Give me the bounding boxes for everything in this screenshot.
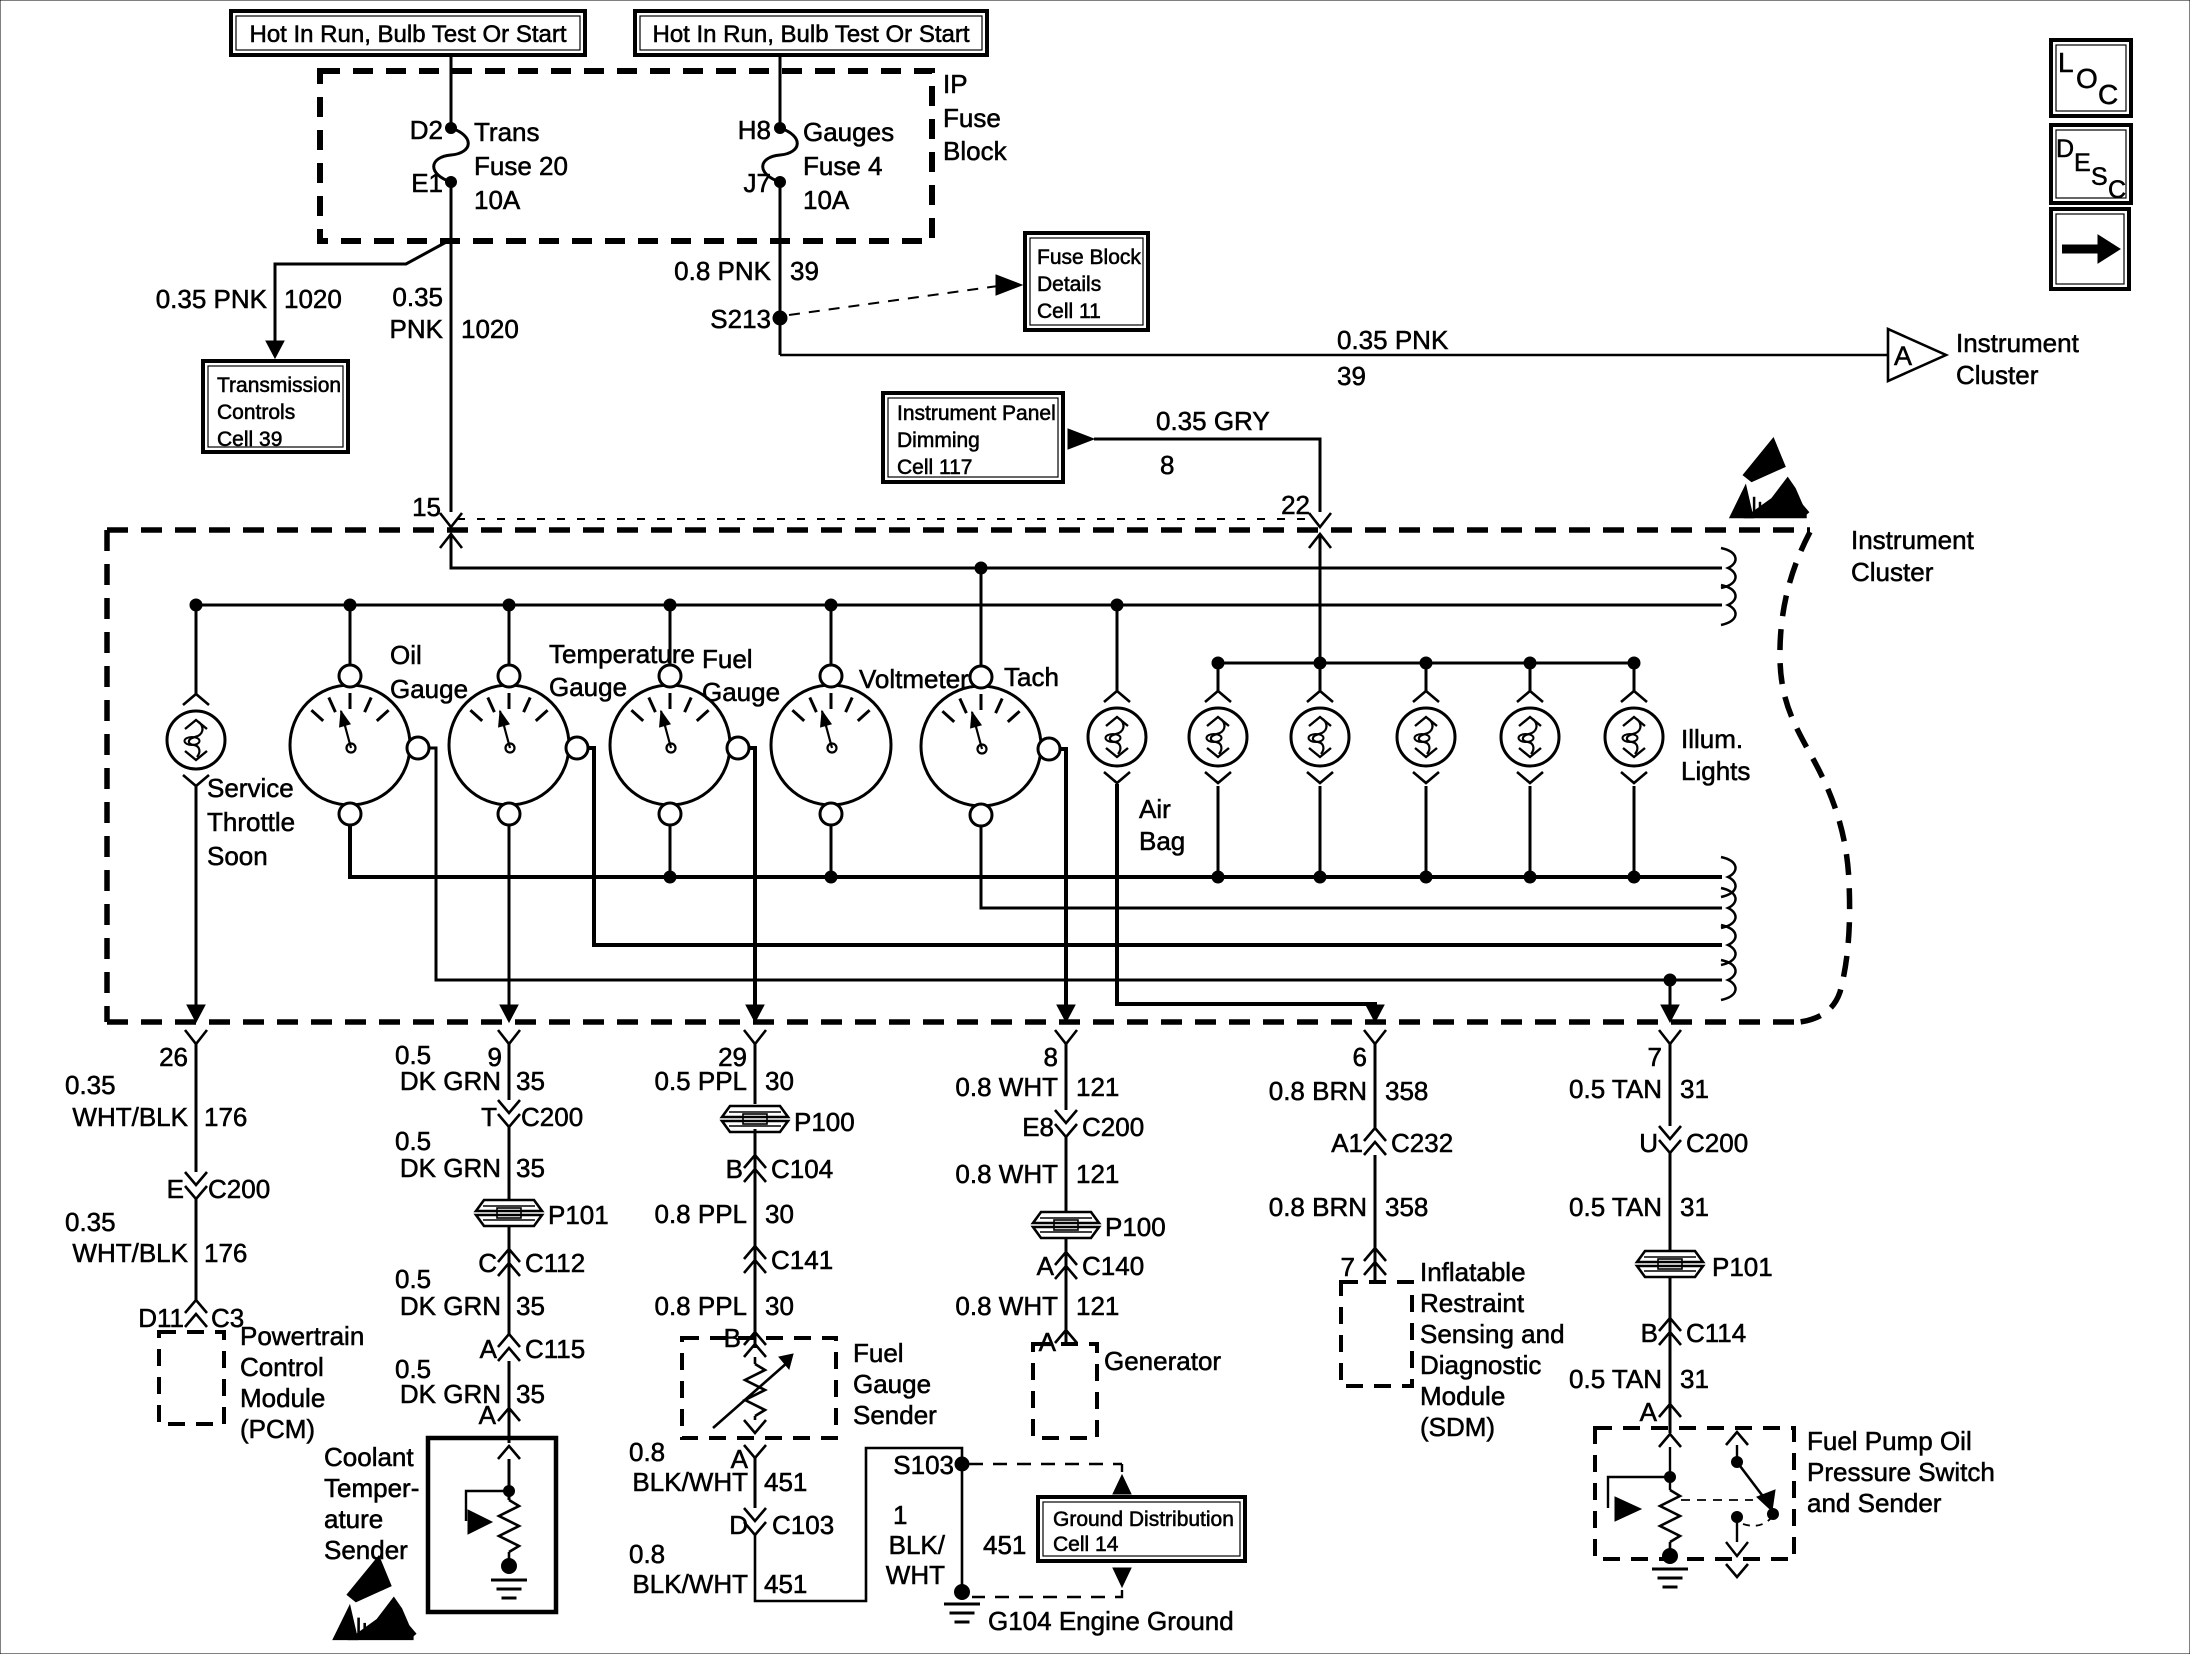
svg-text:A: A <box>480 1334 498 1364</box>
svg-text:E: E <box>167 1174 184 1204</box>
grommet P100 (fuel sender circuit) <box>722 1106 855 1137</box>
svg-text:31: 31 <box>1680 1074 1709 1104</box>
wire: fuel gauge right terminal to pin 29 <box>749 748 755 1007</box>
svg-text:0.8: 0.8 <box>629 1539 665 1569</box>
coolant sender internal: variable resistor <box>499 1500 519 1552</box>
svg-text:C103: C103 <box>772 1510 834 1540</box>
svg-text:Oil: Oil <box>390 640 422 670</box>
svg-text:39: 39 <box>1337 361 1366 391</box>
wire: tach bottom to continuation (y=908) <box>981 826 1722 908</box>
label: Fuel Gauge <box>702 644 780 707</box>
cluster pin 15 connector marks <box>440 513 462 548</box>
svg-text:Tach: Tach <box>1004 662 1059 692</box>
connector pin A at fuel pump switch <box>1640 1397 1681 1427</box>
label: 0.8 BRN 358 (upper) <box>1269 1076 1429 1106</box>
label: Coolant Temperature Sender <box>324 1442 419 1565</box>
label: 0.35 PNK 1020 (main wire) <box>390 282 519 344</box>
wire: feed into Gauges Fuse 4 <box>779 55 782 128</box>
reference box: Instrument Panel Dimming Cell 117 <box>883 393 1063 482</box>
svg-text:0.35: 0.35 <box>65 1070 116 1100</box>
svg-text:Gauge: Gauge <box>390 674 468 704</box>
svg-text:Temper-: Temper- <box>324 1473 419 1503</box>
svg-text:Sender: Sender <box>853 1400 937 1430</box>
label: Oil Gauge <box>390 640 468 704</box>
svg-text:Diagnostic: Diagnostic <box>1420 1350 1541 1380</box>
connector C200 pin E8 <box>1022 1110 1144 1142</box>
svg-text:Generator: Generator <box>1104 1346 1221 1376</box>
wire: 0.35 PNK 39 to instrument cluster (off-page A) <box>780 354 1888 356</box>
label: Voltmeter <box>859 664 969 694</box>
svg-text:176: 176 <box>204 1238 247 1268</box>
svg-text:26: 26 <box>159 1042 188 1072</box>
svg-text:39: 39 <box>790 256 819 286</box>
svg-text:Fuse: Fuse <box>943 103 1001 133</box>
svg-text:E: E <box>2074 149 2091 177</box>
ESD sensitivity symbol (top right) <box>1730 438 1808 518</box>
svg-text:10A: 10A <box>474 185 521 215</box>
wire: 0.5 TAN 31 (C200 to P101) <box>1669 1153 1672 1251</box>
svg-text:Fuel: Fuel <box>702 644 753 674</box>
wire: oil gauge right terminal to continuation (y=980) <box>429 748 1722 980</box>
gauge: Temperature Gauge <box>449 665 588 825</box>
svg-text:451: 451 <box>764 1569 807 1599</box>
svg-text:DK GRN: DK GRN <box>400 1291 501 1321</box>
svg-text:7: 7 <box>1648 1042 1662 1072</box>
svg-text:0.5 TAN: 0.5 TAN <box>1569 1364 1662 1394</box>
lamp: illumination light 2 <box>1291 691 1349 783</box>
svg-text:Controls: Controls <box>217 401 295 424</box>
label: pin 26 <box>159 1042 188 1072</box>
fuel pump sender internal: terminal chevron (left) <box>1659 1434 1681 1447</box>
svg-text:30: 30 <box>765 1291 794 1321</box>
gauge: Voltmeter <box>771 665 891 825</box>
svg-text:Dimming: Dimming <box>897 429 980 452</box>
svg-text:Block: Block <box>943 136 1008 166</box>
wire: 0.8 WHT 121 (C140 to generator) <box>1065 1279 1068 1344</box>
label: 0.5 DK GRN 35 (fourth) <box>395 1354 545 1409</box>
connector pin A at coolant sender <box>479 1400 520 1430</box>
svg-text:Service: Service <box>207 773 294 803</box>
svg-text:0.8 BRN: 0.8 BRN <box>1269 1192 1367 1222</box>
lamp: Service Throttle Soon indicator <box>167 694 225 786</box>
wire: pin 15 feed to gauge bus (y=568) <box>451 534 1722 568</box>
svg-text:Cell 14: Cell 14 <box>1053 1533 1119 1556</box>
wire: 0.5 DK GRN 35 (pin9 to C200) <box>508 1044 511 1100</box>
svg-text:P100: P100 <box>794 1107 855 1137</box>
svg-text:Cluster: Cluster <box>1956 360 2039 390</box>
pin label E1 <box>411 168 443 198</box>
wire: 0.8 WHT 121 (pin8 to C200) <box>1065 1044 1068 1110</box>
wire: 0.8 PPL 30 (P100 to C104) <box>754 1129 757 1182</box>
svg-text:Ground Distribution: Ground Distribution <box>1053 1508 1234 1531</box>
fuel pump sender internal: wire and tap <box>1608 1447 1676 1521</box>
label: 0.8 PNK 39 <box>674 256 819 286</box>
label: Temperature Gauge <box>549 639 695 702</box>
wire: 980 line tap to pin 7 <box>1669 980 1672 1007</box>
svg-text:P101: P101 <box>548 1200 609 1230</box>
svg-text:1020: 1020 <box>284 284 342 314</box>
label: Powertrain Control Module (PCM) <box>240 1321 364 1444</box>
instrument cluster dashed outline (top/left/bottom) <box>107 530 1810 1022</box>
gauge: Tach <box>921 666 1060 826</box>
svg-text:358: 358 <box>1385 1192 1428 1222</box>
lamp: illumination light 1 <box>1189 691 1247 783</box>
label: Inflatable Restraint Sensing and Diagnostic Module (SDM) <box>1420 1257 1565 1442</box>
splice S103 <box>955 1457 969 1471</box>
wire: 0.8 PPL 30 (C104 to C141) <box>754 1182 757 1273</box>
svg-text:C115: C115 <box>525 1334 585 1364</box>
wire: 0.5 DK GRN 35 (C115 to sender) <box>508 1361 511 1443</box>
cluster pin 26 exit <box>185 1005 207 1044</box>
wire: 0.35 WHT/BLK 176 (pin26 to C200) <box>195 1044 198 1172</box>
label: 0.35 WHT/BLK 176 (lower) <box>65 1207 247 1268</box>
svg-text:0.35 PNK: 0.35 PNK <box>1337 325 1449 355</box>
svg-text:Gauge: Gauge <box>853 1369 931 1399</box>
svg-text:0.5 TAN: 0.5 TAN <box>1569 1074 1662 1104</box>
svg-text:Inflatable: Inflatable <box>1420 1257 1526 1287</box>
splice S213 <box>773 311 787 325</box>
cluster pin 9 exit <box>498 1005 520 1044</box>
svg-text:Trans: Trans <box>474 117 540 147</box>
IP Fuse Block dashed outline <box>320 71 932 241</box>
label: 0.8 BLK/WHT 451 (upper) <box>629 1437 807 1497</box>
svg-text:Pressure Switch: Pressure Switch <box>1807 1457 1995 1487</box>
legend box: DESC <box>2051 125 2131 204</box>
svg-text:31: 31 <box>1680 1364 1709 1394</box>
wire: illum lamp bottoms <box>1218 786 1634 877</box>
wire: illum lamp 1 top <box>1217 663 1220 691</box>
wire: 0.35 GRY drop from pin 22 to illum bus <box>1319 534 1322 691</box>
svg-text:8: 8 <box>1160 450 1174 480</box>
svg-text:C: C <box>478 1248 497 1278</box>
label: 0.8 PPL 30 (lower) <box>654 1291 793 1321</box>
fuel sender internal: terminal chevron <box>744 1344 766 1357</box>
pin label H8 <box>738 115 771 145</box>
label: Service Throttle Soon <box>207 773 295 871</box>
svg-text:Cell 39: Cell 39 <box>217 428 282 451</box>
wire: temp gauge bottom to pin 9 <box>508 824 511 1007</box>
svg-text:0.5 TAN: 0.5 TAN <box>1569 1192 1662 1222</box>
svg-text:0.5 PPL: 0.5 PPL <box>654 1066 747 1096</box>
svg-text:Fuse Block: Fuse Block <box>1037 246 1141 269</box>
svg-text:C104: C104 <box>771 1154 833 1184</box>
wire: air bag lamp top <box>1116 605 1119 691</box>
wire: 0.8 PPL 30 (C141 to sender) <box>754 1273 757 1348</box>
ground G104 Engine Ground <box>944 1585 980 1623</box>
svg-text:C200: C200 <box>1082 1112 1144 1142</box>
svg-text:10A: 10A <box>803 185 850 215</box>
svg-text:Powertrain: Powertrain <box>240 1321 364 1351</box>
svg-text:Lights: Lights <box>1681 756 1750 786</box>
svg-text:C112: C112 <box>525 1248 585 1278</box>
label: S103 <box>893 1450 954 1480</box>
svg-text:451: 451 <box>764 1467 807 1497</box>
component box: Generator <box>1033 1344 1097 1438</box>
connector C104 pin B <box>726 1154 834 1184</box>
label: pin 7 <box>1648 1042 1662 1072</box>
reference box: Fuse Block Details Cell 11 <box>1025 233 1148 330</box>
legend box: forward arrow <box>2051 209 2129 289</box>
dashed reference to Ground Distribution (upper) <box>969 1464 1131 1494</box>
svg-text:Details: Details <box>1037 273 1101 296</box>
off-page connector A to Instrument Cluster <box>1888 329 1946 381</box>
wire: 0.5 PPL 30 (pin29 to P100) <box>754 1044 757 1104</box>
svg-text:7: 7 <box>1341 1252 1355 1282</box>
junction dots on gauge top bus <box>190 599 1123 611</box>
reference box: Transmission Controls Cell 39 <box>203 361 348 452</box>
svg-text:WHT/BLK: WHT/BLK <box>72 1102 188 1132</box>
wire: 0.35 PNK 1020 from fuse 20 to cluster pin 15 <box>450 182 453 512</box>
svg-text:H8: H8 <box>738 115 771 145</box>
junction dots on illum top bus <box>1212 657 1640 669</box>
wire: branch 0.35 PNK 1020 to transmission controls <box>266 240 450 358</box>
label: 0.35 PNK 39 (long run) <box>1337 325 1449 391</box>
wire: 0.8 WHT 121 (C200 to P100) <box>1065 1137 1068 1212</box>
label: 0.35 WHT/BLK 176 (upper) <box>65 1070 247 1132</box>
cluster pin 29 exit <box>744 1005 766 1044</box>
legend box: LOC <box>2051 40 2131 116</box>
svg-text:Instrument: Instrument <box>1956 328 2080 358</box>
svg-text:P101: P101 <box>1712 1252 1773 1282</box>
label: 0.8 BRN 358 (lower) <box>1269 1192 1429 1222</box>
svg-text:30: 30 <box>765 1066 794 1096</box>
svg-text:IP: IP <box>943 69 968 99</box>
oil pressure switch internal: bottom contact and exit <box>1726 1512 1748 1578</box>
wire: 0.8 BLK/WHT 451 (C103 to splice S103) <box>755 1448 962 1601</box>
oil pressure switch internal: actuating dashed link <box>1681 1500 1771 1526</box>
svg-text:358: 358 <box>1385 1076 1428 1106</box>
wire: 0.8 BRN 358 (C232 to SDM) <box>1374 1155 1377 1282</box>
wire: 0.5 DK GRN 35 (C200 to P101) <box>508 1127 511 1200</box>
svg-text:Sender: Sender <box>324 1535 408 1565</box>
svg-text:Control: Control <box>240 1352 324 1382</box>
svg-text:30: 30 <box>765 1199 794 1229</box>
svg-text:S: S <box>2091 163 2108 191</box>
wire: temperature gauge right terminal to continuation (y=945) <box>588 748 1722 945</box>
wire: 0.8 WHT 121 (P100 to C140) <box>1065 1238 1068 1279</box>
svg-text:35: 35 <box>516 1291 545 1321</box>
continuation bracket (temp 945) <box>1721 925 1736 965</box>
svg-text:0.8 PNK: 0.8 PNK <box>674 256 771 286</box>
grommet P101 (temp sender circuit) <box>476 1200 609 1230</box>
lamp: illumination light 5 <box>1605 691 1663 783</box>
label: pin 6 <box>1353 1042 1367 1072</box>
label: 0.5 DK GRN 35 (second) <box>395 1126 545 1183</box>
label: 0.8 BLK/WHT 451 (lower) <box>629 1539 807 1599</box>
svg-text:D: D <box>2056 135 2074 163</box>
svg-text:Coolant: Coolant <box>324 1442 414 1472</box>
svg-text:Fuse 20: Fuse 20 <box>474 151 568 181</box>
label: 0.5 TAN 31 (lower) <box>1569 1364 1709 1394</box>
value label: Gauges Fuse 4 10A <box>803 117 894 215</box>
pin label J7 <box>744 168 771 198</box>
wire: 0.5 DK GRN 35 (C112 to C115) <box>508 1276 511 1334</box>
label: Fuel Pump Oil Pressure Switch and Sender <box>1807 1426 1995 1518</box>
label: pin 29 <box>718 1042 747 1072</box>
connector C200 pin T <box>481 1100 583 1132</box>
svg-text:1020: 1020 <box>461 314 519 344</box>
svg-text:Cell 117: Cell 117 <box>897 456 973 479</box>
label: 0.35 GRY 8 <box>1156 406 1270 480</box>
junction dots on ground bus <box>664 871 1640 883</box>
wire: 0.8 PNK 39 from fuse 4 to splice S213 <box>779 182 782 355</box>
svg-text:P100: P100 <box>1105 1212 1166 1242</box>
label: Fuel Gauge Sender <box>853 1338 937 1430</box>
svg-text:0.8: 0.8 <box>629 1437 665 1467</box>
cluster pin 7 exit <box>1659 1005 1681 1044</box>
wire: illum lights top bus (y=663) <box>1218 662 1634 665</box>
wire: illum lamp 4 top <box>1529 663 1532 691</box>
label: Air Bag <box>1139 794 1185 856</box>
dashed reference arrow from S213 to Fuse Block Details <box>789 275 1022 315</box>
svg-text:B: B <box>1641 1318 1658 1348</box>
svg-text:Soon: Soon <box>207 841 268 871</box>
label: 0.8 PPL 30 (mid) <box>654 1199 793 1229</box>
continuation bracket (bus 605) <box>1721 585 1736 625</box>
connector C200 pin E <box>167 1172 271 1204</box>
svg-text:6: 6 <box>1353 1042 1367 1072</box>
svg-text:D2: D2 <box>410 115 443 145</box>
component box: Coolant Temperature Sender <box>428 1438 556 1612</box>
connector C3 pin D11 <box>138 1300 244 1333</box>
svg-text:176: 176 <box>204 1102 247 1132</box>
connector C200 pin U <box>1639 1126 1748 1158</box>
svg-text:Illum.: Illum. <box>1681 724 1743 754</box>
label: 0.35 PNK 1020 (branch) <box>156 284 342 314</box>
wire: fuel gauge top <box>669 605 672 666</box>
wire: 0.5 TAN 31 (C114 to switch) <box>1669 1345 1672 1433</box>
wire: gauge top bus (y=605) <box>196 604 1722 607</box>
svg-text:C140: C140 <box>1082 1251 1144 1281</box>
svg-text:C: C <box>2108 176 2126 204</box>
label: Illum. Lights <box>1681 724 1750 786</box>
label: 1 BLK/WHT 451 (ground lead) <box>886 1500 1027 1590</box>
lamp: Air Bag indicator <box>1088 691 1146 783</box>
label: 0.8 WHT 121 (lower) <box>955 1291 1119 1321</box>
connector C114 pin B <box>1641 1318 1747 1348</box>
wire: fuel gauge bottom <box>669 824 672 877</box>
cluster pin 8 exit <box>1055 1005 1077 1044</box>
wire: service throttle lamp to pin 26 <box>195 786 198 1007</box>
svg-text:0.8 BRN: 0.8 BRN <box>1269 1076 1367 1106</box>
wire: 0.35 GRY 8 to cluster pin 22 <box>1094 439 1320 512</box>
connector C232 pin A1 <box>1331 1128 1453 1158</box>
svg-text:B: B <box>726 1154 743 1184</box>
svg-text:0.8 WHT: 0.8 WHT <box>955 1291 1058 1321</box>
connector pin A at generator <box>1039 1327 1077 1357</box>
svg-text:E1: E1 <box>411 168 443 198</box>
wire: feed into Trans Fuse 20 <box>450 55 453 128</box>
junction: pin 7 tap on 980 line <box>1664 974 1676 986</box>
connector C115 pin A <box>480 1334 586 1364</box>
continuation bracket (bus 877) <box>1721 857 1736 897</box>
svg-text:U: U <box>1639 1128 1658 1158</box>
grommet P100 (generator circuit) <box>1033 1212 1166 1242</box>
grommet P101 (fuel pump circuit) <box>1637 1251 1773 1282</box>
label: Tach <box>1004 662 1059 692</box>
svg-text:Bag: Bag <box>1139 826 1185 856</box>
svg-text:35: 35 <box>516 1153 545 1183</box>
component box: Inflatable Restraint Sensing and Diagnostic Module (SDM) <box>1341 1282 1412 1386</box>
svg-text:C141: C141 <box>771 1245 833 1275</box>
svg-text:D11: D11 <box>138 1303 184 1333</box>
label: pin 22 <box>1281 490 1310 520</box>
component box: Fuel Pump Oil Pressure Switch and Sender <box>1595 1428 1794 1559</box>
svg-text:D: D <box>729 1510 748 1540</box>
svg-text:L: L <box>2058 47 2074 78</box>
svg-text:0.8 WHT: 0.8 WHT <box>955 1072 1058 1102</box>
connector face dashed line between pins 15 and 22 <box>457 518 1314 520</box>
svg-text:8: 8 <box>1044 1042 1058 1072</box>
label: 0.5 TAN 31 (upper) <box>1569 1074 1709 1104</box>
svg-text:Instrument: Instrument <box>1851 525 1975 555</box>
connector C103 pin D <box>729 1508 834 1540</box>
label: 0.5 PPL 30 <box>654 1066 793 1096</box>
fuse F4 (Gauges Fuse 4 10A), terminals H8/J7 <box>763 123 798 188</box>
cluster pin 6 exit <box>1364 1005 1386 1044</box>
wire: voltmeter top <box>830 605 833 666</box>
svg-text:C200: C200 <box>208 1174 270 1204</box>
connector pin 7 at SDM <box>1341 1248 1386 1282</box>
connector C112 pin C <box>478 1248 585 1278</box>
reference box: Ground Distribution Cell 14 <box>1038 1497 1245 1561</box>
power feed box: Hot In Run, Bulb Test Or Start (right) <box>635 11 987 55</box>
wire: illum lamp 3 top <box>1425 663 1428 691</box>
lamp: illumination light 4 <box>1501 691 1559 783</box>
label: G104 Engine Ground <box>988 1606 1234 1636</box>
label: IP Fuse Block <box>943 69 1008 166</box>
pin label D2 <box>410 115 443 145</box>
svg-text:A: A <box>1037 1251 1055 1281</box>
connector C140 pin A <box>1037 1251 1145 1281</box>
label: 0.8 WHT 121 (upper) <box>955 1072 1119 1102</box>
lamp: illumination light 3 <box>1397 691 1455 783</box>
connector pin B at fuel sender <box>724 1323 766 1353</box>
svg-text:Gauge: Gauge <box>549 672 627 702</box>
wire: tach right terminal to pin 8 <box>1060 749 1066 1007</box>
wire: 0.5 DK GRN 35 (P101 to C112) <box>508 1226 511 1276</box>
instrument cluster dashed outline (curved right edge) <box>1780 532 1850 1022</box>
svg-text:A: A <box>479 1400 497 1430</box>
gauge: Fuel Gauge <box>610 665 749 825</box>
wire: illum lamp 5 top <box>1633 663 1636 691</box>
continuation bracket (oil 980) <box>1721 960 1736 1000</box>
svg-text:(PCM): (PCM) <box>240 1414 315 1444</box>
svg-text:S103: S103 <box>893 1450 954 1480</box>
component box: Powertrain Control Module (PCM) <box>159 1332 224 1424</box>
svg-text:G104 Engine Ground: G104 Engine Ground <box>988 1606 1234 1636</box>
svg-text:A: A <box>1640 1397 1658 1427</box>
svg-text:C232: C232 <box>1391 1128 1453 1158</box>
svg-text:35: 35 <box>516 1379 545 1409</box>
svg-text:BLK/WHT: BLK/WHT <box>632 1569 748 1599</box>
svg-text:O: O <box>2076 63 2098 94</box>
wire: gauge ground bus (y=877) oil/fuel/voltmeter/illum bottoms <box>350 824 1722 877</box>
svg-text:Gauge: Gauge <box>702 677 780 707</box>
fuel pump sender internal: variable resistor <box>1660 1490 1680 1542</box>
label: Instrument Cluster (off-page) <box>1956 328 2080 390</box>
svg-text:31: 31 <box>1680 1192 1709 1222</box>
junction: tach feed <box>975 562 987 574</box>
svg-text:15: 15 <box>412 492 441 522</box>
svg-text:J7: J7 <box>744 168 771 198</box>
svg-text:0.8 PPL: 0.8 PPL <box>654 1291 747 1321</box>
svg-text:0.35 PNK: 0.35 PNK <box>156 284 268 314</box>
coolant sender internal: case ground <box>491 1552 527 1598</box>
wire: voltmeter bottom <box>830 824 833 877</box>
svg-text:C200: C200 <box>521 1102 583 1132</box>
svg-text:Restraint: Restraint <box>1420 1288 1525 1318</box>
